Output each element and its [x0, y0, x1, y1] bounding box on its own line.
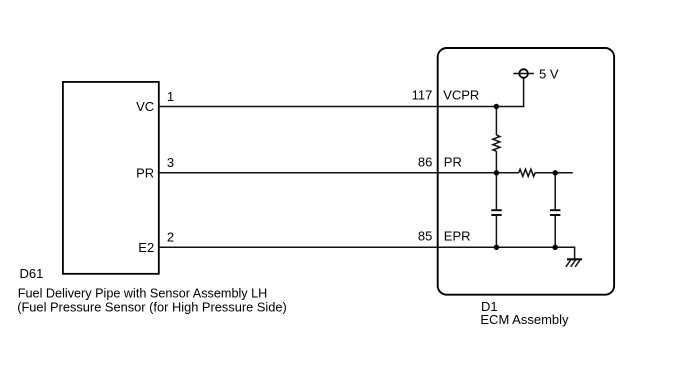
svg-text:117: 117	[412, 88, 433, 103]
node E junction C2/EPR	[553, 245, 558, 250]
wire node C down to capacitor C2	[554, 173, 556, 210]
svg-text:(Fuel Pressure Sensor (for Hig: (Fuel Pressure Sensor (for High Pressure…	[17, 299, 287, 314]
node A junction on VCPR line	[494, 104, 499, 109]
wire R1 to capacitor C1	[495, 151, 497, 210]
svg-text:PR: PR	[136, 166, 154, 181]
wire junction to resistor R1	[495, 107, 497, 136]
resistor R1 (vertical pull-up)	[493, 135, 500, 151]
svg-text:PR: PR	[444, 155, 462, 170]
svg-text:VC: VC	[136, 99, 154, 114]
svg-text:E2: E2	[138, 240, 154, 255]
wire PR to resistor (net PR)	[159, 172, 519, 174]
node C junction after R2	[553, 170, 558, 175]
node D junction C1/EPR	[494, 245, 499, 250]
ground symbol	[566, 259, 582, 267]
svg-text:2: 2	[167, 230, 174, 245]
svg-text:VCPR: VCPR	[443, 88, 479, 103]
wire VC to VCPR (net VC)	[159, 78, 524, 107]
svg-text:5 V: 5 V	[539, 66, 559, 81]
svg-text:85: 85	[418, 229, 432, 244]
capacitor C1	[491, 209, 501, 211]
wire E2 to ground (net EPR)	[159, 247, 575, 259]
svg-text:EPR: EPR	[444, 229, 471, 244]
svg-text:ECM Assembly: ECM Assembly	[480, 312, 569, 327]
svg-text:3: 3	[167, 155, 174, 170]
capacitor C2	[550, 209, 560, 211]
wire C2 to EPR line	[554, 215, 556, 247]
wire C1 to EPR line	[495, 215, 497, 247]
svg-text:1: 1	[167, 89, 174, 104]
svg-text:D61: D61	[20, 266, 44, 281]
connector D61 box	[63, 82, 159, 274]
svg-text:Fuel Delivery Pipe with Sensor: Fuel Delivery Pipe with Sensor Assembly …	[18, 286, 267, 301]
ECM U-D1 box	[438, 48, 614, 295]
node B junction on PR line	[494, 170, 499, 175]
wire R2 to stub	[535, 172, 573, 174]
resistor R2 (series on PR)	[519, 169, 535, 176]
svg-text:86: 86	[418, 155, 432, 170]
5 V supply terminal	[519, 69, 528, 78]
